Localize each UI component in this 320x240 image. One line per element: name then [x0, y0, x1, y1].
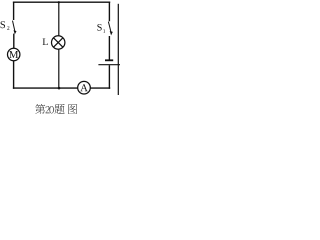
lamp L cross stroke NE-SW	[54, 38, 63, 47]
caption: 第20题图	[35, 104, 77, 114]
ammeter A circle	[78, 81, 91, 94]
caption glyph 0	[49, 106, 53, 113]
wire: switch S2 to motor	[13, 34, 15, 49]
lamp L circle	[52, 36, 65, 49]
wire: middle branch upper from top bus to lamp	[58, 2, 60, 36]
wire: middle branch lower from lamp to bottom bus	[58, 49, 60, 88]
battery positive plate (short thick)	[105, 59, 113, 61]
wire: right branch upper stub from top-right corner to switch S1	[108, 2, 110, 22]
caption glyph 图	[68, 104, 77, 114]
label S2	[1, 21, 10, 29]
wire: left branch upper stub from top-left corner to switch S2	[13, 2, 15, 20]
ammeter A letter	[80, 84, 87, 91]
page rule artifact at right edge	[117, 4, 119, 95]
wire: top bus	[13, 1, 110, 3]
lamp L cross stroke NW-SE	[54, 38, 63, 47]
caption glyph 2	[46, 106, 50, 113]
wire: bottom bus left segment	[13, 87, 78, 89]
wire: battery to bottom bus	[108, 65, 110, 89]
node: junction dot of lamp branch on top bus	[58, 1, 60, 3]
node: junction dot of lamp branch on bottom bus	[58, 87, 61, 90]
label L	[43, 39, 48, 45]
caption glyph 题	[55, 104, 65, 114]
switch S2 blade	[13, 21, 16, 33]
wire: motor to bottom bus	[13, 61, 15, 89]
motor M letter	[9, 51, 18, 58]
wire: bottom bus right segment	[90, 87, 110, 89]
caption glyph 第	[35, 104, 45, 114]
label S1	[97, 24, 105, 33]
switch S1 arrowhead at blade tip	[110, 31, 113, 35]
switch S2 arrowhead at blade tip	[14, 30, 17, 34]
wire: switch S1 to battery	[108, 36, 110, 60]
switch S1 blade	[108, 22, 111, 34]
motor M circle	[8, 48, 20, 60]
battery negative plate (long thin)	[98, 64, 120, 66]
